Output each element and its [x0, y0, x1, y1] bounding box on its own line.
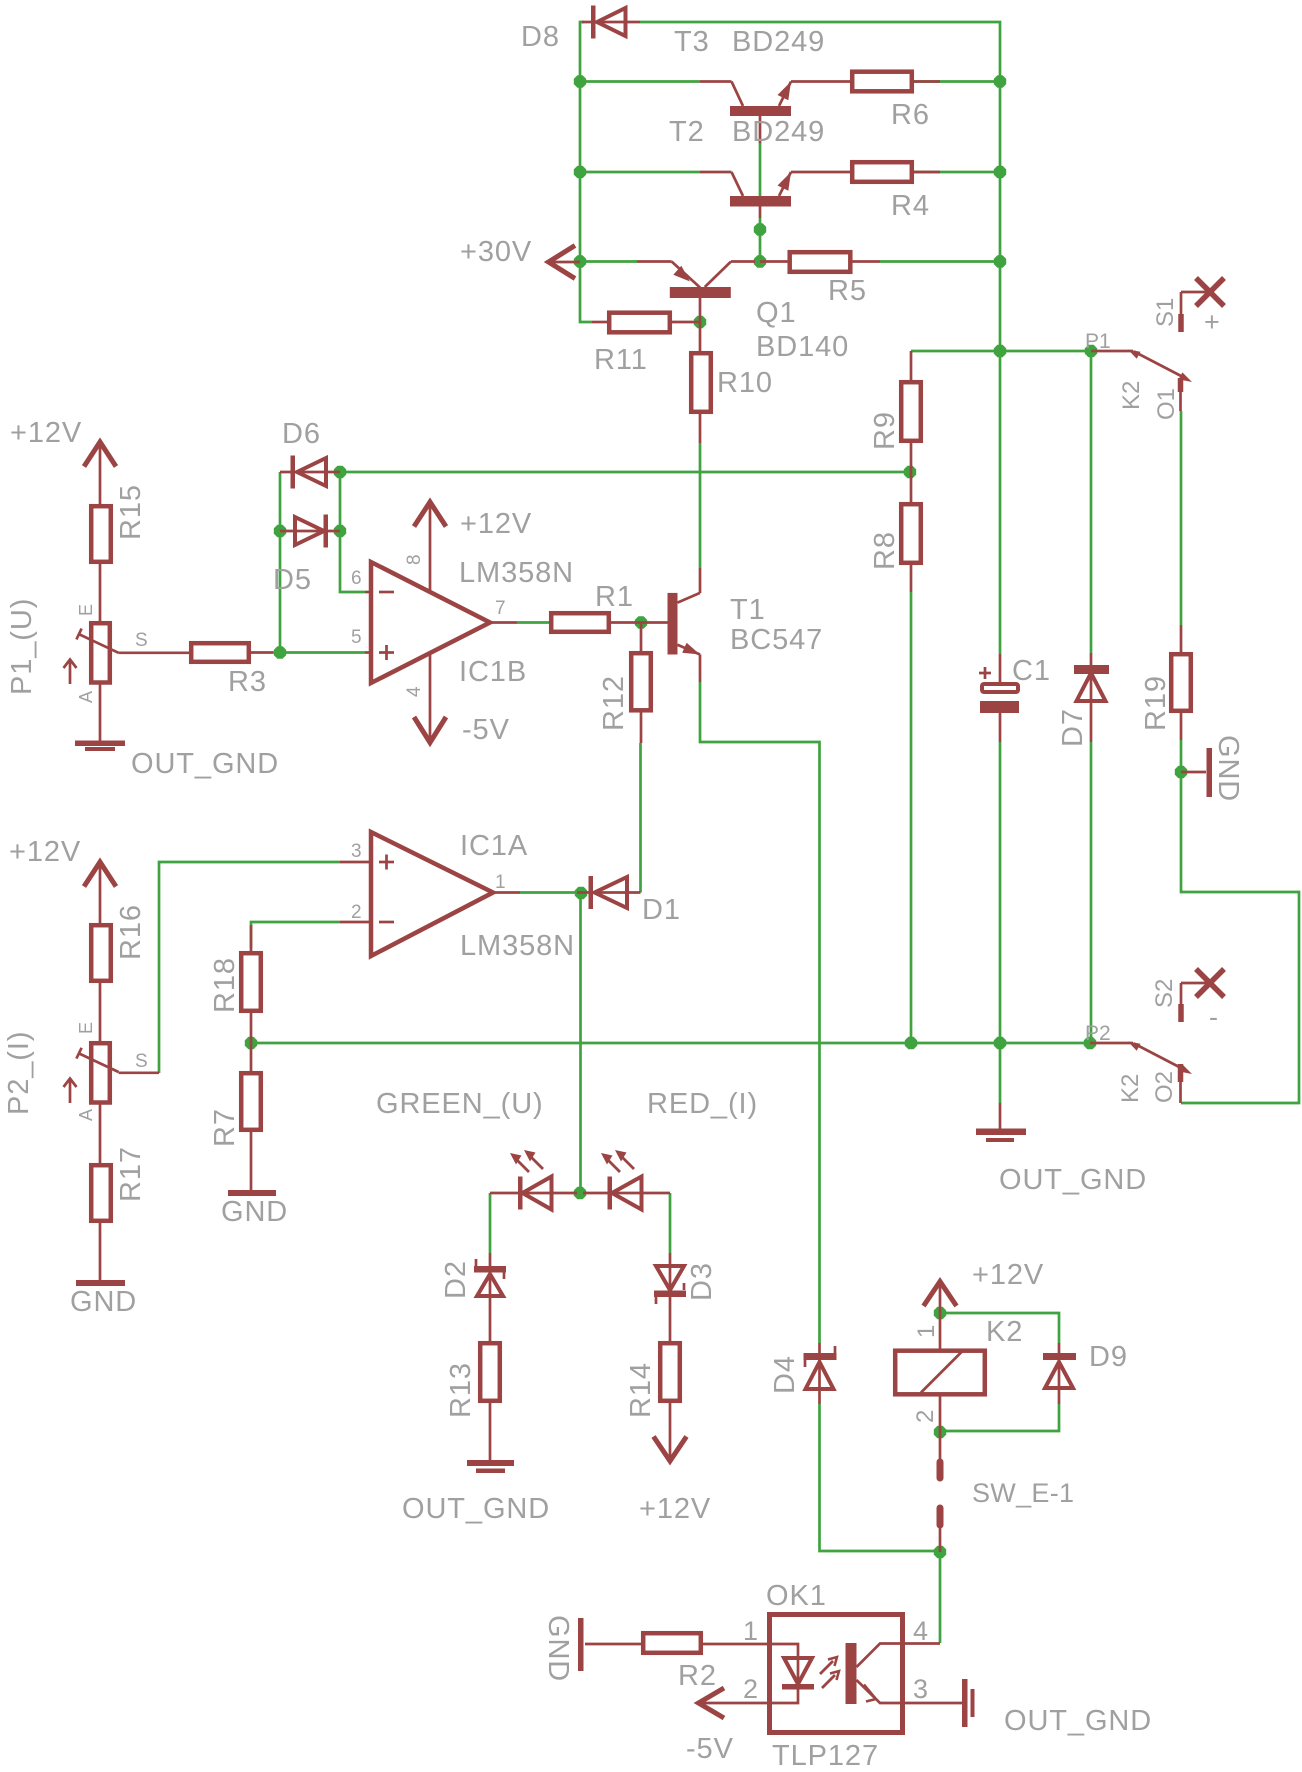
- svg-text:+12V: +12V: [10, 417, 82, 449]
- potentiometer P2_(I): [3, 1022, 159, 1121]
- wire T2 base down to Q1 row: [759, 218, 762, 262]
- switch K2 contact O1: [1085, 330, 1192, 420]
- junction LED anode node: [574, 1187, 586, 1199]
- svg-text:E: E: [76, 604, 96, 616]
- svg-text:BD249: BD249: [732, 26, 825, 58]
- junction right rail / R6: [994, 75, 1006, 87]
- resistor R19: [1140, 625, 1191, 740]
- wire D7 bottom to P2 node: [1090, 742, 1093, 1043]
- resistor R18: [209, 925, 261, 1043]
- svg-text:OUT_GND: OUT_GND: [999, 1164, 1147, 1196]
- supply +30V: [460, 236, 580, 279]
- transistor Q1: [637, 262, 849, 364]
- svg-text:1: 1: [495, 872, 506, 893]
- ground GND at R19: [1181, 735, 1244, 802]
- wire OK1 pin4 stub: [905, 1642, 940, 1645]
- switch SW_E-1: [940, 1432, 1074, 1552]
- svg-text:4: 4: [913, 1616, 928, 1646]
- terminal S2: [1151, 969, 1224, 1032]
- resistor R6: [852, 72, 940, 131]
- svg-text:OK1: OK1: [766, 1580, 827, 1612]
- svg-text:R4: R4: [891, 190, 930, 222]
- svg-text:RED_(I): RED_(I): [647, 1088, 758, 1120]
- resistor R16: [91, 904, 147, 1041]
- svg-text:D1: D1: [642, 894, 681, 926]
- svg-text:-5V: -5V: [686, 1733, 734, 1765]
- svg-text:GND: GND: [221, 1196, 288, 1228]
- resistor R5: [790, 252, 880, 307]
- supply +12V at R16: [9, 836, 116, 923]
- svg-text:-5V: -5V: [462, 714, 510, 746]
- svg-text:1: 1: [743, 1616, 758, 1646]
- svg-text:T2: T2: [669, 116, 705, 148]
- ground OUT_GND mid right: [976, 1103, 1147, 1196]
- junction D5 left: [274, 525, 286, 537]
- potentiometer P1_(U): [6, 598, 189, 703]
- wire R5 to right rail: [880, 260, 1000, 263]
- junction +30V rail / T2: [574, 166, 586, 178]
- transistor T3: [674, 26, 850, 143]
- svg-text:5: 5: [351, 627, 362, 648]
- ground OUT_GND at P1: [75, 685, 279, 781]
- svg-text:LM358N: LM358N: [459, 557, 574, 589]
- junction +30V rail / T3: [574, 75, 586, 87]
- wire R19 bottom to GND node: [1180, 740, 1183, 772]
- svg-text:K2: K2: [1117, 1074, 1144, 1103]
- svg-text:TLP127: TLP127: [772, 1740, 879, 1772]
- transistor T2: [669, 116, 850, 218]
- svg-text:GREEN_(U): GREEN_(U): [376, 1088, 544, 1120]
- wire D9 bottom to relay pin2: [940, 1404, 1059, 1431]
- wire right rail below C1 to OUT_GND: [999, 742, 1002, 1103]
- wire top D8 to right rail: [640, 22, 1000, 654]
- resistor R8: [869, 472, 921, 592]
- resistor R1: [551, 581, 641, 632]
- junction relay pin 2: [934, 1426, 946, 1438]
- ground OUT_GND at R13: [402, 1460, 550, 1525]
- svg-text:R8: R8: [869, 531, 901, 570]
- junction D6 row / R9 R8: [904, 466, 916, 478]
- svg-text:R1: R1: [595, 581, 634, 613]
- switch K2 contact O2: [1085, 1022, 1192, 1103]
- wire GND node loop to O2 contact: [1181, 772, 1299, 1103]
- junction T2/T3 base: [754, 223, 766, 235]
- svg-text:R9: R9: [869, 411, 901, 450]
- junction right rail / long horizontal: [994, 1037, 1006, 1049]
- diode D6: [280, 418, 340, 489]
- junction right rail / R4: [994, 166, 1006, 178]
- diode D5: [273, 515, 340, 597]
- wire pin 5 row: [273, 651, 365, 654]
- wire R12 down to D1 anode: [639, 743, 642, 893]
- diode D4: [769, 1343, 837, 1404]
- svg-text:K2: K2: [986, 1316, 1023, 1348]
- junction P1 node: [1085, 345, 1097, 357]
- svg-text:P1: P1: [1085, 330, 1111, 353]
- svg-text:7: 7: [495, 598, 506, 619]
- wire +30V left rail: [580, 22, 592, 322]
- svg-text:R11: R11: [594, 344, 648, 376]
- resistor R2: [585, 1633, 767, 1692]
- svg-text:E: E: [76, 1022, 96, 1034]
- resistor R12: [598, 623, 651, 744]
- svg-text:P1_(U): P1_(U): [6, 598, 38, 695]
- svg-text:1: 1: [913, 1325, 940, 1338]
- junction relay pin 1: [934, 1307, 946, 1319]
- svg-text:S1: S1: [1152, 298, 1179, 327]
- svg-text:+12V: +12V: [460, 508, 532, 540]
- wire R6 to right rail: [880, 80, 1000, 83]
- svg-text:D7: D7: [1057, 708, 1089, 747]
- supply +12V at relay: [924, 1259, 1045, 1313]
- svg-text:K2: K2: [1118, 381, 1145, 410]
- wire D6 right down to pin 6: [340, 472, 365, 592]
- svg-text:R18: R18: [209, 957, 241, 1013]
- svg-text:2: 2: [351, 902, 362, 923]
- svg-text:6: 6: [351, 568, 362, 589]
- capacitor C1: [979, 654, 1051, 742]
- terminal S1: [1152, 278, 1224, 337]
- LED red: [583, 1150, 670, 1210]
- wire R10 to T1 collector: [699, 443, 702, 568]
- svg-text:3: 3: [913, 1674, 928, 1704]
- svg-text:+: +: [1204, 307, 1220, 337]
- ground GND at R7: [221, 1190, 288, 1228]
- diode D1: [577, 876, 681, 926]
- svg-text:GND: GND: [70, 1286, 137, 1318]
- wire T3 base to T2: [759, 142, 762, 196]
- svg-text:OUT_GND: OUT_GND: [1004, 1705, 1152, 1737]
- wire D4 bottom to SW node: [820, 1404, 941, 1551]
- svg-text:8: 8: [404, 554, 425, 565]
- junction R3 / pin5: [274, 646, 286, 658]
- junction R18 / R7: [245, 1037, 257, 1049]
- ground GND at R17: [70, 1280, 137, 1318]
- supply +12V at R14: [639, 1437, 711, 1526]
- transistor T1: [641, 568, 823, 682]
- wire T3 collector row: [580, 80, 700, 83]
- wire IC1B output to R1: [517, 621, 549, 624]
- svg-text:R5: R5: [828, 275, 867, 307]
- svg-text:R6: R6: [891, 99, 930, 131]
- resistor R14: [625, 1343, 680, 1460]
- wire D1 node down to LED node: [579, 893, 582, 1193]
- wire R18 top to pin 2: [251, 922, 340, 948]
- wire T2 collector row: [580, 171, 700, 174]
- svg-text:Q1: Q1: [756, 297, 797, 329]
- junction R1 / R12 / T1 base: [635, 616, 647, 628]
- wire T1 emitter down and over to D4: [700, 682, 820, 1343]
- svg-text:SW_E-1: SW_E-1: [972, 1478, 1074, 1508]
- svg-text:R7: R7: [209, 1108, 241, 1147]
- svg-text:2: 2: [912, 1410, 939, 1423]
- wire R18/R7 node long horizontal to P2: [251, 1042, 1090, 1045]
- svg-text:LM358N: LM358N: [460, 930, 575, 962]
- svg-text:R10: R10: [717, 367, 773, 399]
- svg-text:C1: C1: [1012, 655, 1051, 687]
- supply -5V at IC1B: [414, 714, 510, 746]
- svg-text:OUT_GND: OUT_GND: [402, 1493, 550, 1525]
- svg-text:R12: R12: [598, 675, 630, 731]
- svg-text:D2: D2: [440, 1260, 472, 1299]
- junction SW / D4 / OK1: [934, 1546, 946, 1558]
- svg-text:R16: R16: [115, 904, 147, 960]
- svg-text:P2_(I): P2_(I): [3, 1031, 35, 1115]
- svg-text:D5: D5: [273, 564, 312, 596]
- wire R4 to right rail: [880, 171, 1000, 174]
- junction R8 / long horizontal: [905, 1037, 917, 1049]
- resistor R17: [91, 1104, 147, 1281]
- junction right rail / P1 row: [994, 345, 1006, 357]
- wire P1 node row: [911, 350, 1091, 353]
- junction R19 / GND: [1175, 766, 1187, 778]
- svg-text:D3: D3: [686, 1262, 718, 1301]
- wire O1 contact down to R19: [1180, 411, 1183, 625]
- svg-text:R14: R14: [625, 1362, 657, 1418]
- svg-text:BD140: BD140: [756, 331, 849, 363]
- junction D6 right: [334, 466, 346, 478]
- wire LED red down to D3: [669, 1193, 672, 1253]
- svg-text:-: -: [1209, 1002, 1218, 1032]
- svg-text:R17: R17: [115, 1146, 147, 1202]
- wire Q1 emitter row: [580, 260, 637, 263]
- svg-text:A: A: [76, 1109, 96, 1121]
- svg-text:D8: D8: [521, 21, 560, 53]
- svg-text:IC1B: IC1B: [459, 656, 527, 688]
- svg-text:P2: P2: [1085, 1022, 1111, 1045]
- diode D3: [654, 1253, 718, 1341]
- svg-text:R3: R3: [228, 666, 267, 698]
- svg-text:+12V: +12V: [9, 836, 81, 868]
- wire LED green down to D2: [489, 1193, 492, 1253]
- LED green: [490, 1150, 577, 1210]
- resistor R9: [869, 351, 921, 472]
- resistor R3: [191, 643, 273, 698]
- resistor R11: [592, 313, 700, 376]
- svg-text:S2: S2: [1151, 979, 1178, 1008]
- wire SW bottom to OK1 pin 4: [939, 1552, 942, 1643]
- resistor R4: [852, 162, 940, 222]
- svg-text:GND: GND: [542, 1615, 574, 1682]
- wire P1 node down to D7: [1090, 351, 1093, 653]
- op-amp IC1A: [340, 830, 575, 962]
- svg-text:R19: R19: [1140, 675, 1172, 731]
- svg-text:D6: D6: [282, 418, 321, 450]
- svg-text:S: S: [135, 1051, 148, 1072]
- wire D6 left down to pin5 node: [279, 472, 282, 653]
- resistor R15: [91, 484, 147, 621]
- diode D7: [1057, 653, 1109, 747]
- relay coil K2: [895, 1313, 1023, 1432]
- wire R8 bottom to long horizontal: [910, 592, 913, 1043]
- svg-text:3: 3: [351, 841, 362, 862]
- resistor R13: [445, 1343, 500, 1461]
- wire relay pin1 to D9 top: [940, 1313, 1059, 1343]
- svg-text:BD249: BD249: [732, 116, 825, 148]
- ground GND at R2: [542, 1615, 584, 1682]
- svg-text:D4: D4: [769, 1355, 801, 1394]
- svg-text:+12V: +12V: [972, 1259, 1044, 1291]
- wire D6 row to R9/R8 node: [340, 471, 910, 474]
- resistor R10: [691, 322, 773, 443]
- svg-text:O1: O1: [1153, 388, 1180, 420]
- junction IC1A out / D1: [575, 887, 587, 899]
- svg-text:T3: T3: [674, 26, 710, 58]
- ground OUT_GND at OK1 pin 3: [905, 1679, 1152, 1737]
- svg-text:R13: R13: [445, 1362, 477, 1418]
- svg-text:2: 2: [743, 1674, 758, 1704]
- optocoupler OK1: [743, 1580, 928, 1772]
- junction D5 right: [334, 525, 346, 537]
- wire P2 wiper to pin 3: [159, 862, 340, 1073]
- wire IC1A output to D1 node: [520, 891, 575, 894]
- svg-text:R15: R15: [115, 484, 147, 540]
- op-amp IC1B: [351, 501, 574, 743]
- svg-text:4: 4: [404, 686, 425, 697]
- junction base chain / Q1 row: [754, 255, 766, 267]
- resistor R7: [209, 1043, 261, 1190]
- svg-text:R2: R2: [678, 1660, 717, 1692]
- svg-text:+30V: +30V: [460, 236, 532, 268]
- junction right rail / R5: [994, 255, 1006, 267]
- svg-text:D9: D9: [1089, 1341, 1128, 1373]
- junction Q1 base / R11 / R10: [694, 316, 706, 328]
- supply +12V at R15: [10, 417, 116, 504]
- svg-text:A: A: [76, 691, 96, 703]
- diode D9: [1043, 1341, 1128, 1404]
- junction +30V rail / Q1: [574, 255, 586, 267]
- svg-text:O2: O2: [1151, 1071, 1178, 1103]
- diode D8: [521, 6, 640, 54]
- svg-text:OUT_GND: OUT_GND: [131, 748, 279, 780]
- supply -5V at OK1 pin 2: [686, 1688, 767, 1765]
- svg-text:BC547: BC547: [730, 624, 823, 656]
- supply +12V at IC1B: [414, 502, 532, 540]
- svg-text:GND: GND: [1212, 735, 1244, 802]
- svg-text:T1: T1: [730, 594, 766, 626]
- svg-text:+12V: +12V: [639, 1493, 711, 1525]
- svg-text:S: S: [135, 630, 148, 651]
- junction P2 node: [1084, 1037, 1096, 1049]
- diode D2: [440, 1253, 506, 1341]
- svg-text:IC1A: IC1A: [460, 830, 528, 862]
